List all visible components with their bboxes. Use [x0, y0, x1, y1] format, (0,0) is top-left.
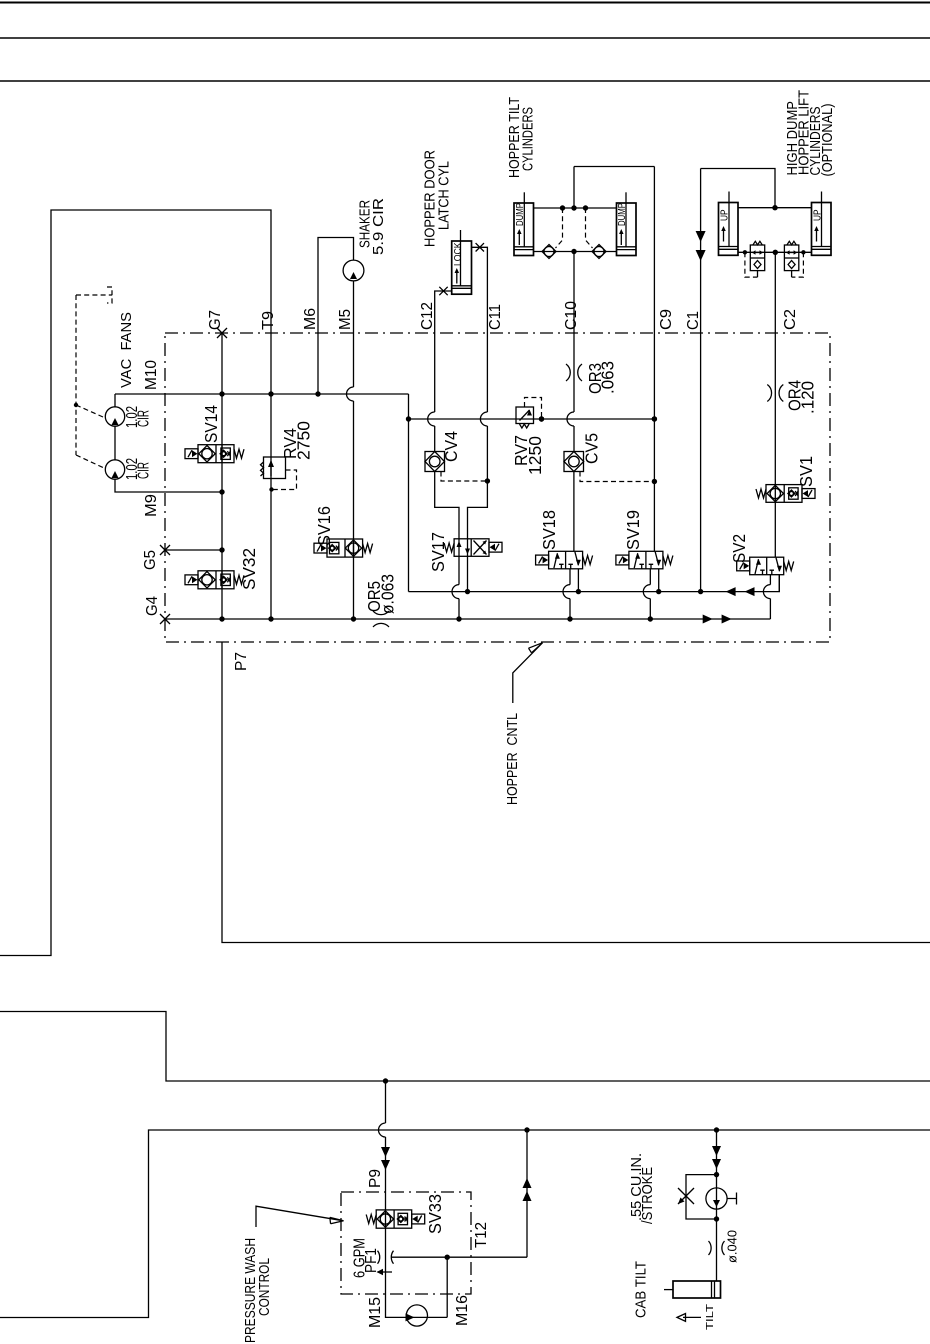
svg-text:DUMP: DUMP [515, 203, 526, 226]
wire SV17 work port to tank bus [458, 556, 460, 619]
wire pressure rail y=419 [409, 418, 655, 420]
wire C9 from tilt cylinder link [574, 167, 654, 552]
wire SV17 drain to rail A [467, 556, 469, 591]
wire M6 line to shaker [318, 238, 354, 395]
label UP right with arrow [816, 228, 818, 242]
svg-text:ø.063: ø.063 [378, 574, 398, 614]
orifice OR5 .063 [373, 611, 389, 615]
counterbalance valve left [750, 245, 764, 271]
junction dots bottom feed lines [383, 1078, 388, 1083]
svg-text:G5: G5 [142, 550, 159, 570]
wire CV5 to SV18 [573, 472, 575, 552]
svg-text:SV19: SV19 [623, 510, 643, 550]
wire C10 inside box [573, 333, 575, 452]
svg-text:SV16: SV16 [314, 506, 334, 546]
flow arrows on tank bus [703, 615, 713, 624]
wire M10 extension down and pressure rail [408, 394, 410, 592]
callout arrow to HOPPER CNTL box [513, 643, 543, 703]
svg-text:SV14: SV14 [201, 405, 221, 443]
svg-text:(OPTIONAL): (OPTIONAL) [820, 104, 836, 177]
port G5 [160, 545, 170, 555]
fan motor 2 (1.02 CIR) [105, 460, 124, 479]
top border rule 3 [0, 80, 930, 82]
wire feed to high dump rod ends [701, 169, 775, 208]
svg-text:G4: G4 [144, 596, 161, 616]
wire: bottom feed line upper [0, 1012, 930, 1082]
label DUMP left with arrow [518, 231, 520, 245]
svg-text:C1: C1 [685, 311, 702, 330]
svg-text:T12: T12 [473, 1222, 490, 1248]
node on dashed drive line [74, 403, 78, 407]
wire P9 drop [385, 1081, 387, 1210]
svg-text:2750: 2750 [294, 421, 314, 460]
wire M5 line [353, 281, 355, 619]
wire tank bus y=619 [165, 618, 770, 620]
wire cap-end manifold high dump [738, 251, 812, 253]
wire CV4 to SV17 [435, 472, 459, 539]
svg-text:CV4: CV4 [441, 431, 461, 462]
relief valve RV4 2750 [264, 457, 286, 479]
svg-text:CAB TILT: CAB TILT [634, 1261, 650, 1318]
svg-text:SV1: SV1 [796, 456, 816, 487]
top border rule 2 [0, 37, 930, 39]
svg-text:T9: T9 [260, 311, 277, 330]
pilot line CV4 [441, 472, 487, 482]
relief valve RV7 1250 [516, 407, 534, 424]
wire C10 from tilt cylinders [573, 252, 575, 334]
valve SV1 [766, 485, 802, 503]
wire: left frame loop to tank [0, 210, 271, 956]
valve SV16 [327, 539, 363, 557]
hopper tilt cylinder right [617, 203, 637, 256]
svg-text:.120: .120 [798, 381, 818, 414]
wire SV18 drain to rail A [577, 569, 579, 592]
wire C11 to latch rod end [472, 247, 488, 333]
svg-text:SV2: SV2 [729, 534, 749, 563]
wire drain rail A y=591.6 [409, 574, 780, 591]
svg-text:VAC FANS: VAC FANS [119, 312, 135, 388]
svg-text:C2: C2 [782, 309, 799, 330]
cab tilt pump (.55 cu.in./stroke) [706, 1188, 727, 1209]
wire G5 stub [165, 549, 222, 551]
junction dots [219, 391, 224, 396]
svg-text:M6: M6 [302, 308, 319, 330]
svg-text:SV32: SV32 [239, 548, 259, 590]
svg-text:CIR: CIR [136, 462, 153, 479]
svg-text:M16: M16 [454, 1295, 471, 1326]
svg-text:DUMP: DUMP [617, 203, 628, 226]
hopper tilt cylinder left [514, 203, 534, 256]
high dump lift cylinder left [719, 203, 739, 256]
dashed drive line to pump 1 [76, 405, 103, 417]
wire C11 inside box [468, 333, 488, 539]
wire SV18 work port to tank bus [569, 569, 571, 619]
svg-text:UP: UP [719, 209, 730, 221]
wire rod-end manifold high dump [738, 207, 812, 209]
svg-text:.063: .063 [598, 361, 618, 394]
fan motor 1 (1.02 CIR) [105, 407, 124, 426]
svg-text:UP: UP [812, 209, 823, 221]
wash pump motor [406, 1305, 427, 1326]
enclosure PRESSURE WASH CONTROL [341, 1192, 471, 1294]
vac fans dashed enclosure [76, 287, 112, 455]
check valve CV4 [425, 452, 445, 472]
dashed drive line to pump 2 [76, 455, 104, 468]
wire RV4 branch [270, 394, 272, 619]
valve SV33 [376, 1210, 412, 1228]
label LOCK with arrow [456, 270, 458, 284]
valve SV19 [629, 551, 663, 569]
wire C1 return line [700, 169, 702, 592]
bypass loop with needle valve [686, 1175, 717, 1219]
wire cap-end line tilt cylinders [534, 251, 617, 253]
svg-text:LOCK: LOCK [453, 242, 464, 266]
svg-text:CV5: CV5 [582, 433, 602, 464]
cab tilt cylinder [673, 1281, 721, 1298]
svg-text:M9: M9 [143, 494, 160, 517]
valve SV32 [198, 571, 234, 589]
valve SV17 [454, 539, 489, 557]
label DUMP right with arrow [620, 231, 622, 245]
hopper door latch cylinder [452, 241, 472, 294]
pilot check left (tilt) [542, 245, 556, 259]
pilot check right (tilt) [592, 245, 606, 259]
check valve CV5 [564, 452, 584, 472]
svg-text:P9: P9 [367, 1169, 384, 1188]
svg-text:M5: M5 [337, 309, 354, 330]
svg-text:P7: P7 [233, 652, 250, 671]
orifice OR4 .120 [767, 385, 771, 402]
svg-text:G7: G7 [207, 310, 224, 330]
valve SV2 [750, 557, 784, 575]
wire rod-end line tilt cylinders [534, 207, 617, 209]
wire M15 to pump [386, 1294, 407, 1317]
wire G7/P line [221, 333, 223, 619]
svg-text:5.9 CIR: 5.9 CIR [371, 198, 387, 255]
svg-text:HOPPER CNTL: HOPPER CNTL [505, 713, 521, 805]
svg-text:CIR: CIR [136, 410, 153, 427]
wire PF1 tee to T12 riser [392, 1130, 528, 1257]
svg-text:TILT: TILT [705, 1304, 716, 1330]
svg-text:SV18: SV18 [539, 510, 559, 550]
orifice .040 [709, 1241, 712, 1255]
port G4 [160, 614, 170, 624]
svg-text:ø.040: ø.040 [725, 1230, 740, 1263]
wire SV19 work port to tank bus [649, 569, 651, 619]
wire SV1 to SV2 [774, 502, 776, 557]
wire SV19 drain to rail A [658, 569, 660, 592]
counterbalance valve right [784, 245, 798, 271]
tilt direction arrow [683, 1316, 701, 1318]
wire cab tilt drop [716, 1130, 718, 1281]
svg-text:SV33: SV33 [425, 1194, 445, 1234]
svg-text:C12: C12 [419, 302, 436, 330]
svg-text:C9: C9 [658, 309, 675, 330]
top border rule 1 [0, 2, 930, 4]
wire M16 riser [428, 1257, 448, 1317]
pilot line CV5 [580, 472, 654, 482]
svg-text:CONTROL: CONTROL [257, 1258, 273, 1316]
pilot lines tilt checks [556, 208, 563, 248]
label UP left with arrow [723, 228, 725, 242]
svg-text:M10: M10 [143, 360, 160, 390]
wire SV2 work port to tank bus [769, 574, 771, 619]
wire C12 to latch cap end [435, 291, 452, 333]
wire C2 line [774, 252, 776, 484]
shaker motor circle [343, 260, 364, 281]
orifice OR3 .063 [566, 364, 570, 381]
wire: bottom feed line lower [0, 1130, 930, 1318]
wire M10 bus [115, 394, 222, 492]
high dump lift cylinder right [812, 203, 832, 256]
svg-text:LATCH CYL: LATCH CYL [437, 161, 453, 230]
wire SV33 down to PF1 [385, 1228, 387, 1294]
wire P7 return line [222, 642, 930, 943]
svg-text:/STROKE: /STROKE [640, 1167, 656, 1224]
svg-text:C11: C11 [487, 304, 504, 330]
callout arrow to pressure wash box [256, 1206, 344, 1227]
enclosure HOPPER CNTL (dash-dot box) [165, 333, 830, 642]
flow divider PF1 6 GPM [378, 1251, 380, 1264]
wire C12 inside box to CV4 [434, 333, 436, 452]
flow arrows on rail A [726, 587, 736, 596]
valve SV18 [549, 551, 583, 569]
svg-text:PF1: PF1 [363, 1248, 380, 1273]
port G7 [217, 328, 227, 338]
svg-text:C10: C10 [563, 301, 580, 330]
wire SV2 drain to rail A [778, 574, 780, 591]
wire riser from rod-end line [573, 167, 575, 209]
svg-text:M15: M15 [367, 1297, 384, 1328]
svg-text:CYLINDERS: CYLINDERS [521, 107, 537, 171]
valve SV14 [198, 445, 234, 463]
svg-text:1250: 1250 [525, 436, 545, 475]
svg-text:SV17: SV17 [428, 532, 448, 572]
